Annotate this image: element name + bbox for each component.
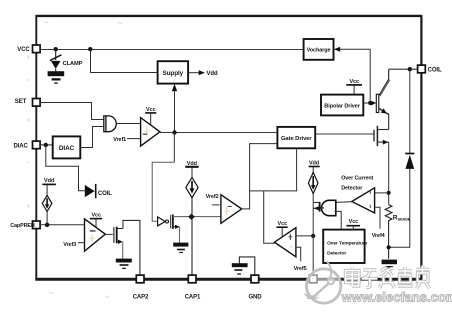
svg-text:Vref2: Vref2 [206,194,219,200]
power symbol Vcc above U2 [145,107,156,125]
transistor Q5 discharge Cext [313,202,324,212]
transistor Q1 discharge CAP1 [171,214,180,243]
wire GND pin internal [239,257,254,275]
block Vocharge [304,39,334,60]
arrow into Vocharge right edge [334,47,340,52]
svg-text:Vcc: Vcc [349,219,359,225]
wire gate output to comparator U2 [116,123,140,125]
svg-text:Detector: Detector [327,250,346,256]
wire Rsense bottom [388,224,390,259]
wire Vref1 stub [127,138,141,140]
wire supply feed [91,50,158,73]
wire U5 minus input to Vref5 [296,247,301,261]
svg-text:Vdd: Vdd [44,178,54,184]
svg-text:Vref3: Vref3 [63,242,76,248]
svg-text:Vref1: Vref1 [113,137,126,143]
op-amp U5 comparator Vref5 (points left) [274,228,296,257]
svg-text:Over Current: Over Current [341,176,373,182]
svg-text:CAP1: CAP1 [185,294,201,300]
svg-text:VCC: VCC [17,47,30,53]
and-gate U1 (SET/DIAC) [104,116,116,132]
wire gray tap to inverter [152,162,174,221]
pin Cext [307,275,320,301]
wire U6 output to gate [336,201,352,204]
node junction base [368,101,372,105]
inverter U3 [158,217,169,226]
arrow supply output to Vdd [199,70,205,75]
wire U8 output to Q2 gate [105,233,113,235]
wire Cext rail [312,194,314,276]
arrow into Q3 base [371,101,376,106]
node junction on VCC rail at clamp [54,47,58,51]
power symbol Vcc above Bipolar Driver [346,79,362,95]
wire VCC rail [40,49,304,51]
svg-text:Detector: Detector [341,186,363,192]
node junction COIL rail [408,67,412,71]
svg-text:SET: SET [15,99,27,105]
block Supply [158,61,189,83]
wire DIAC pin to DIAC block [40,144,53,146]
svg-text:Vcc: Vcc [91,212,101,218]
wire Gate Driver to output MOSFET gate [315,133,373,135]
wire DIAC coil tap [46,145,85,191]
wire CAP1 riser [191,198,193,276]
node junction CapPREH [45,223,49,227]
pin SET [15,99,40,107]
wire source sense line [388,142,390,205]
ground under CLAMP [48,71,65,84]
wire U6 plus input [375,192,389,194]
wire CapPREH input [40,224,85,226]
wire emitter to MOSFET drain [388,114,390,130]
watermark logo circle [305,262,341,304]
node junction Rsense bottom [387,245,391,249]
node junction on VCC rail at supply tap [88,47,92,51]
wire diode branch lower [389,169,410,247]
current source I3 (Cext) [308,161,319,194]
svg-text:DIAC: DIAC [14,144,29,150]
svg-text:Supply: Supply [162,70,183,77]
wire supply output [188,72,199,74]
svg-text:Vref5: Vref5 [294,266,307,272]
arrow into supply bottom [172,84,177,91]
block Bipolar Driver [321,95,363,116]
svg-text:CLAMP: CLAMP [63,61,83,67]
svg-text:CAP2: CAP2 [133,294,149,300]
svg-text:Vcc: Vcc [349,79,359,85]
pin CAP2 [133,275,149,300]
wire U2 output to Gate Driver [160,132,278,134]
wire supply bottom riser [174,92,176,133]
svg-text:Bipolar Driver: Bipolar Driver [324,103,361,109]
diode D2 freewheel [405,154,414,169]
op-amp U2 comparator (SET/DIAC) [141,118,160,147]
pin VCC [17,45,40,53]
svg-text:Vocharge: Vocharge [307,48,331,54]
transistor Q3 bipolar NPN [376,69,390,114]
wire U5 plus input to Cext line [296,235,313,237]
svg-text:Gate Driver: Gate Driver [281,136,312,142]
ground under Q2 [116,259,132,269]
wire Vref5 comparator output link [264,191,275,243]
wire COIL rail [389,68,418,70]
label Over Current Detector [341,176,373,192]
svg-text:Vcc: Vcc [278,221,288,227]
power symbol Vcc above U8 [90,212,102,227]
pin CapPREH [10,221,40,229]
wire Vref3 stub [78,242,85,244]
current source I1 (CAP1 charge) [185,161,198,198]
wire DIAC block to gate [80,127,103,148]
svg-text:CapPREH: CapPREH [10,223,35,229]
node junction U2 output [172,130,176,134]
diode D1 to COIL [85,184,112,198]
current source I2 (CapPREH) [42,178,56,225]
wire Vocharge sense from base node [340,49,370,103]
svg-text:Vref4: Vref4 [372,233,386,239]
stray mark top left [27,21,122,297]
svg-text:SENSE: SENSE [398,216,411,221]
pin DIAC [14,141,41,150]
resistor Rsense [385,205,410,224]
pin GND [248,275,262,300]
wire U4 output riser to Gate Driver [242,144,278,209]
svg-text:GND: GND [248,294,262,300]
wire Vref2 dash stub [212,204,219,206]
power symbol Vcc above OTD block [346,219,360,230]
and-gate U7 over current latch (faces left) [322,200,336,215]
wire mid link to Gate Driver bottom riser [250,148,297,191]
power symbol Vcc above U5 [277,221,288,237]
wire SET to gate [40,103,104,120]
transistor Q4 output MOSFET [374,126,389,146]
op-amp U6 over current comparator (points left) [352,188,375,213]
ground under Q1 [173,243,188,253]
block Over Temperature Detector [323,230,367,263]
wire Bipolar Driver output to base [363,102,371,104]
svg-text:Vdd: Vdd [207,71,218,77]
ground under Rsense [382,260,397,268]
wire Q2 drain to CAP2 [123,220,140,275]
svg-text:DIAC: DIAC [59,145,75,152]
transistor Q2 discharge CAP2 [114,227,123,259]
node junction sense tap [387,191,391,195]
wire U6 minus input to Vref4 [375,207,380,228]
pin COIL [418,65,442,74]
IC outer boundary box [35,15,422,279]
node junction on Cext line [311,234,315,238]
ground at GND pin [232,263,248,274]
node junction on DIAC wire [44,143,48,147]
wire diode branch upper [409,69,411,153]
wire riser down from U2 output node [173,133,175,163]
pin CAP1 [185,275,201,300]
svg-text:COIL: COIL [98,191,112,197]
svg-text:Over Temperature: Over Temperature [327,241,368,247]
op-amp U8 comparator CapPREH [85,219,106,251]
block Gate Driver [277,127,315,148]
svg-text:COIL: COIL [428,68,442,74]
zener diode CLAMP [50,55,61,72]
capacitor/zener CLAMP branch wire [55,49,57,60]
op-amp U4 comparator CAP1 [221,195,242,224]
svg-text:www.elecfans.com: www.elecfans.com [341,290,452,305]
wire CAP1 node line [173,216,221,218]
node junction CAP1 (diamond dot) [188,214,195,221]
block DIAC [53,136,81,158]
wire U7 lower input to OTD [335,211,342,229]
